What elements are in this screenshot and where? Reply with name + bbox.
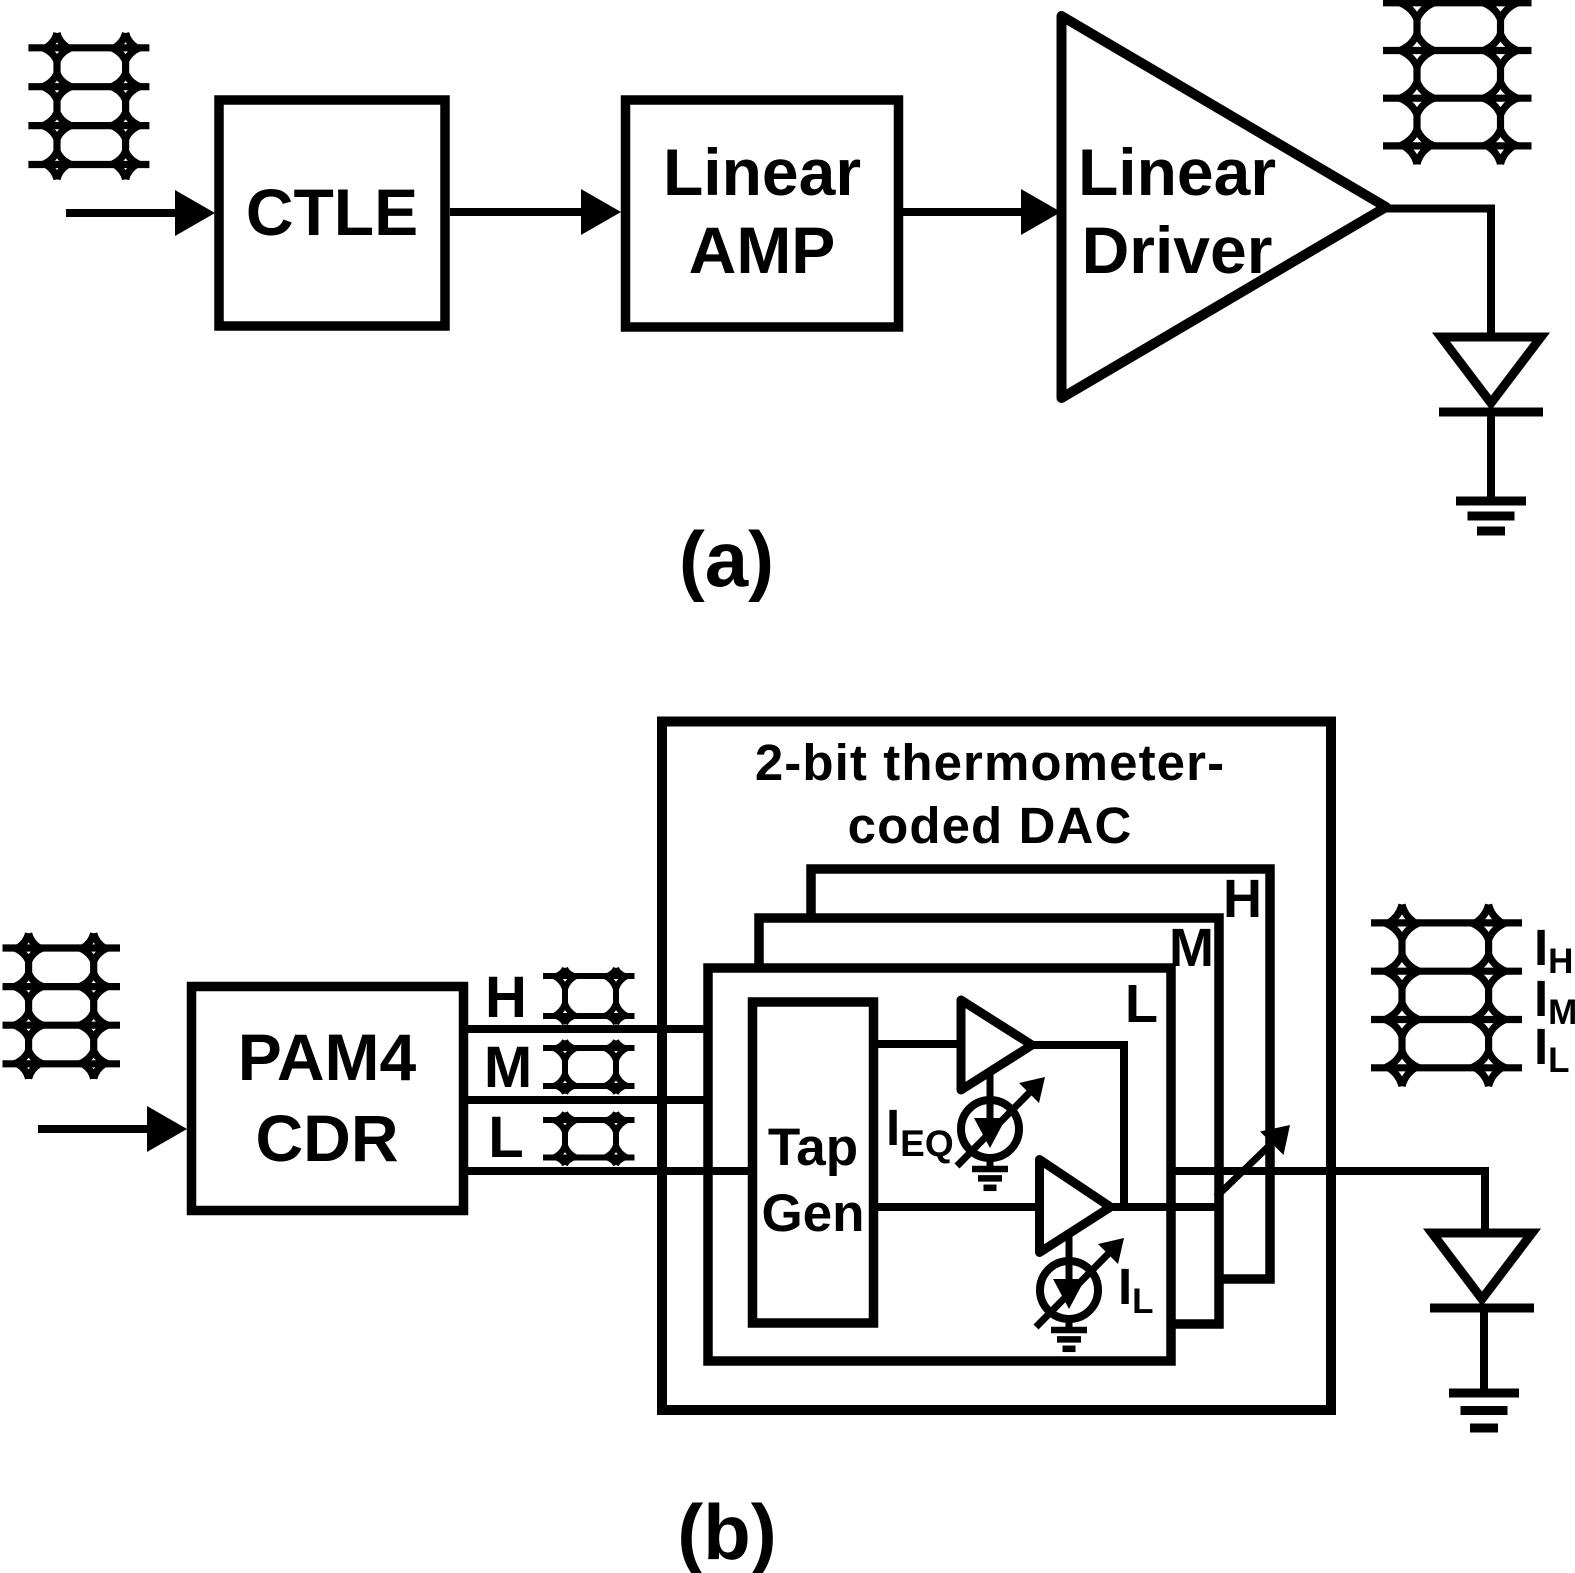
wire current source IEQ to ground [987, 1158, 994, 1166]
eye L: levels [543, 1120, 635, 1158]
amplifier EQ [961, 1000, 1032, 1090]
ground of IL [1051, 1330, 1087, 1349]
current source circle IL [1040, 1261, 1098, 1319]
wire H [468, 1025, 708, 1033]
svg-text:L: L [488, 1105, 523, 1170]
variable arrow of IEQ [957, 1091, 1031, 1166]
eye diagram input (b): traces [15, 933, 108, 1078]
wire EQ amp output [1032, 1045, 1124, 1207]
block CTLE [219, 100, 445, 326]
eye M: levels [543, 1048, 635, 1086]
svg-text:CTLE: CTLE [246, 175, 418, 249]
wire input arrow (a) [66, 209, 181, 217]
svg-text:H: H [485, 965, 527, 1030]
eye diagram input (a): levels [28, 48, 149, 165]
block Linear AMP [626, 100, 899, 327]
block PAM4 CDR [192, 987, 464, 1211]
variable arrow of IL [1036, 1252, 1110, 1327]
svg-text:CDR: CDR [256, 1101, 399, 1175]
wire L [468, 1167, 753, 1175]
block Tap Gen [753, 1002, 874, 1323]
box 2-bit thermometer-coded DAC [662, 722, 1331, 1411]
eye diagram input (b): levels [3, 948, 121, 1064]
op-amp Linear Driver [1062, 16, 1387, 398]
svg-text:Tap: Tap [768, 1118, 858, 1177]
box slice H [811, 869, 1270, 1279]
svg-text:coded DAC: coded DAC [848, 797, 1133, 854]
wire L to Tap Gen [700, 1167, 757, 1175]
svg-text:PAM4: PAM4 [238, 1020, 417, 1094]
wire L inside DAC [657, 1167, 753, 1175]
svg-text:L: L [1125, 974, 1158, 1034]
wire diode D1 to ground [1487, 416, 1495, 499]
wire into current source IEQ [987, 1074, 994, 1121]
wire main amp output [1110, 1203, 1219, 1211]
diode D1 [1441, 337, 1541, 403]
wire into current source IL [1066, 1235, 1073, 1282]
svg-text:Driver: Driver [1082, 213, 1273, 287]
arrow variable output [1216, 1145, 1270, 1197]
ground of IEQ [972, 1169, 1008, 1188]
eye diagram output (b): traces [1385, 905, 1506, 1087]
wire driver output [1386, 209, 1491, 339]
svg-text:H: H [1223, 869, 1262, 929]
wire TapGen to EQ amp [874, 1040, 961, 1048]
eye M: traces [554, 1040, 627, 1093]
eye diagram input (a): traces [43, 33, 140, 179]
box slice M [759, 918, 1219, 1324]
svg-text:AMP: AMP [689, 213, 836, 287]
svg-text:Linear: Linear [1078, 135, 1276, 209]
wire TapGen to main amp [874, 1203, 1040, 1211]
eye diagram output (a): traces [1400, 0, 1518, 164]
eye diagram output (b): levels [1371, 923, 1522, 1068]
eye L: traces [554, 1113, 627, 1166]
svg-text:Gen: Gen [761, 1184, 864, 1243]
wire H inside DAC [657, 1025, 708, 1033]
eye H: traces [554, 968, 627, 1024]
svg-text:(b): (b) [677, 1488, 777, 1573]
svg-text:2-bit thermometer-: 2-bit thermometer- [755, 734, 1225, 791]
ground (a) [1456, 501, 1526, 531]
box slice L [708, 968, 1171, 1361]
wire diode D2 to ground [1480, 1312, 1488, 1391]
eye diagram output (a): levels [1383, 3, 1532, 146]
svg-text:M: M [1169, 918, 1214, 978]
diode D2 [1432, 1233, 1532, 1299]
svg-text:(a): (a) [679, 515, 774, 603]
eye H: levels [543, 976, 635, 1016]
wire M inside DAC [657, 1096, 708, 1104]
wire M [468, 1096, 708, 1104]
wire Linear AMP to Linear Driver [903, 208, 1027, 216]
wire current source IL to ground [1066, 1319, 1073, 1327]
amplifier main [1040, 1160, 1111, 1253]
svg-text:M: M [484, 1035, 532, 1100]
wire input arrow (b) [38, 1125, 153, 1133]
current source circle IEQ [961, 1100, 1019, 1158]
svg-text:Linear: Linear [663, 135, 861, 209]
ground (b) [1449, 1393, 1519, 1428]
wire DAC output [1171, 1171, 1485, 1234]
wire CTLE to Linear AMP [450, 208, 587, 216]
